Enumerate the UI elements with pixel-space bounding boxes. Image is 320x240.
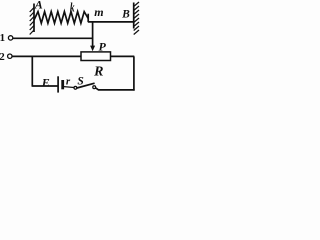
- wire battery to switch: [64, 86, 74, 89]
- svg-text:1: 1: [0, 32, 5, 44]
- battery E (short thick plate): [61, 80, 64, 89]
- bottom-left wire to battery: [32, 85, 57, 87]
- switch S: right contact: [93, 86, 96, 89]
- svg-text:r: r: [66, 76, 71, 88]
- wall B (right fixed wall with hatching): [134, 2, 139, 35]
- svg-text:S: S: [77, 75, 83, 87]
- spring k (zigzag between wall A and mass m): [34, 12, 88, 24]
- svg-text:m: m: [94, 5, 103, 19]
- wire from rheostat right end to right rail: [111, 55, 135, 57]
- svg-text:2: 2: [0, 51, 5, 63]
- left rail from wire 2 down to battery loop: [31, 56, 33, 86]
- bottom-right wire from switch to right rail: [96, 88, 135, 90]
- wire from terminal 2 to rheostat left end: [12, 55, 81, 57]
- wiper link from m down to P (with arrowhead): [92, 22, 94, 47]
- svg-text:B: B: [121, 8, 130, 20]
- rheostat R (resistor box): [81, 52, 111, 61]
- wire from terminal 1 to wiper: [13, 37, 93, 39]
- svg-text:k: k: [70, 1, 75, 15]
- svg-text:E: E: [41, 76, 50, 90]
- right rail: [133, 56, 135, 90]
- wall A (left fixed wall with hatching): [30, 4, 34, 35]
- rod / rail from m to wall B: [88, 21, 134, 23]
- battery E (long plate): [57, 76, 59, 92]
- svg-text:R: R: [93, 64, 103, 79]
- mass m (small plate at end of spring): [87, 14, 89, 23]
- switch S: left contact: [74, 86, 77, 89]
- switch S: lever: [77, 83, 95, 88]
